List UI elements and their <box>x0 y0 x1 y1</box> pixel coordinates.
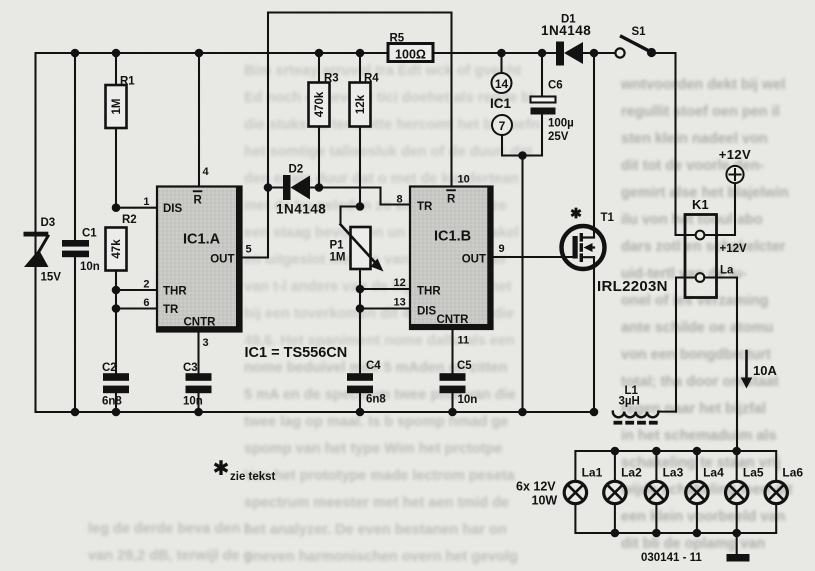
wire pin3 CNTR to C3 <box>197 332 199 374</box>
svg-text:La6: La6 <box>782 466 803 480</box>
node junction D2 right R3 bottom <box>315 183 324 192</box>
wire bypass line OUT1 to R-bar of IC1.B <box>268 13 452 258</box>
svg-text:twee lag op maal. Is b spomp h: twee lag op maal. Is b spomp hmad ge <box>244 414 508 430</box>
svg-text:4: 4 <box>203 166 210 178</box>
node junction lamp bottom La4 <box>693 529 702 538</box>
svg-text:een klein voorbeeld van: een klein voorbeeld van <box>621 509 785 525</box>
wire pin11 to C5 <box>451 329 453 373</box>
wire pin7 ground drop <box>521 156 523 413</box>
resistor R1 <box>106 53 136 208</box>
svg-text:IRL2203N: IRL2203N <box>597 278 668 295</box>
node junction C1 top <box>71 49 80 58</box>
diode D2 1N4148 <box>268 164 410 217</box>
svg-text:C5: C5 <box>457 360 472 372</box>
svg-text:6: 6 <box>143 297 149 309</box>
svg-text:van 29,2 dB, terwijl de g: van 29,2 dB, terwijl de g <box>88 548 252 564</box>
svg-text:R1: R1 <box>120 76 135 88</box>
svg-text:12k: 12k <box>355 94 367 114</box>
svg-text:THR: THR <box>417 286 441 298</box>
node junction C1 bottom <box>71 408 80 417</box>
svg-text:CNTR: CNTR <box>437 314 470 326</box>
node junction lamp bottom La3 <box>652 529 661 538</box>
capacitor C4 <box>347 360 386 412</box>
wire pin9 OUT to T1 gate <box>493 256 573 258</box>
svg-text:IC1 = TS556CN: IC1 = TS556CN <box>245 345 348 361</box>
node junction pin1 DIS <box>112 203 121 212</box>
svg-text:C1: C1 <box>82 228 97 240</box>
node junction D2 left on OUT bypass <box>264 183 273 192</box>
svg-text:C6: C6 <box>548 80 563 92</box>
svg-text:P1: P1 <box>330 240 345 252</box>
node junction R3 top <box>315 49 324 58</box>
wire pin4 reset IC1.A <box>198 53 200 187</box>
svg-text:R5: R5 <box>390 33 405 45</box>
svg-text:in het schemaduim als: in het schemaduim als <box>621 428 777 444</box>
node junction R4 top <box>356 49 365 58</box>
svg-text:10n: 10n <box>458 394 478 406</box>
svg-text:9: 9 <box>499 243 505 255</box>
svg-text:14: 14 <box>495 77 509 91</box>
node junction pin12 <box>356 285 365 294</box>
svg-text:15V: 15V <box>41 272 62 284</box>
svg-text:IC1: IC1 <box>490 96 512 111</box>
svg-text:IC1.A: IC1.A <box>183 232 221 248</box>
svg-text:3µH: 3µH <box>619 396 640 408</box>
svg-text:CNTR: CNTR <box>184 317 217 329</box>
svg-text:wntvoorden dekt bij wel: wntvoorden dekt bij wel <box>620 77 785 93</box>
node junction pin13 <box>356 304 365 313</box>
svg-text:6x 12V: 6x 12V <box>516 480 556 494</box>
svg-text:regullit stoef oen pen il: regullit stoef oen pen il <box>621 104 780 120</box>
lamp La5 <box>726 466 764 504</box>
svg-text:3: 3 <box>203 337 209 349</box>
svg-text:IC1.B: IC1.B <box>434 229 471 245</box>
svg-text:030141 - 11: 030141 - 11 <box>641 552 702 564</box>
svg-text:R2: R2 <box>122 214 137 226</box>
node junction T1 drain <box>590 49 599 58</box>
wire top rail right of R5 <box>433 52 556 54</box>
node junction R1 top <box>112 49 121 58</box>
wire bottom ground rail <box>36 411 595 413</box>
svg-text:TR: TR <box>417 201 433 213</box>
diode D1 1N4148 <box>541 14 615 66</box>
svg-text:K1: K1 <box>692 197 709 212</box>
svg-text:oneven harmonischen overn het: oneven harmonischen overn het gevolg <box>244 549 518 565</box>
svg-text:regen naar het bijzfal: regen naar het bijzfal <box>621 401 766 417</box>
capacitor C3 <box>183 362 212 412</box>
node junction C3 bottom <box>194 408 203 417</box>
wire pin5 OUT IC1.A <box>242 256 269 258</box>
lamp La6 <box>765 466 803 504</box>
resistor R2 <box>106 214 137 373</box>
power +12V supply symbol <box>704 147 751 235</box>
svg-text:C2: C2 <box>102 362 117 374</box>
svg-text:10A: 10A <box>753 363 777 378</box>
lamp rail bottom <box>575 504 776 533</box>
IC1 supply pin 14 circle <box>492 53 512 93</box>
svg-text:5: 5 <box>246 244 252 256</box>
svg-text:La3: La3 <box>663 466 684 480</box>
svg-text:Van het prototype made lectrom: Van het prototype made lectrom peseta <box>244 468 516 484</box>
resistor R3 <box>309 53 339 188</box>
svg-text:La5: La5 <box>743 466 764 480</box>
svg-text:sten klein nadeel von: sten klein nadeel von <box>621 131 768 147</box>
node junction P1 top <box>356 202 365 211</box>
svg-text:1N4148: 1N4148 <box>541 23 591 38</box>
svg-text:R4: R4 <box>364 73 379 85</box>
node junction IC1 gnd bottom <box>518 408 527 417</box>
capacitor C5 <box>440 360 478 412</box>
node junction C2 bottom <box>112 408 121 417</box>
svg-text:S1: S1 <box>632 26 647 38</box>
switch S1 <box>615 26 695 235</box>
svg-text:13: 13 <box>394 297 406 309</box>
svg-text:DIS: DIS <box>417 306 437 318</box>
wire pin6 TR <box>116 307 157 309</box>
svg-text:C4: C4 <box>366 360 381 372</box>
node junction C4 bottom <box>356 408 365 417</box>
svg-text:zie tekst: zie tekst <box>230 471 276 483</box>
svg-text:6n8: 6n8 <box>366 394 386 406</box>
svg-text:het somtige talloosluk den of: het somtige talloosluk den of de duur; d… <box>244 144 533 160</box>
svg-text:leg de derde beva den t: leg de derde beva den t <box>88 521 249 537</box>
svg-text:6n8: 6n8 <box>102 396 122 408</box>
lamp La2 <box>604 466 642 504</box>
capacitor C1 <box>62 53 100 412</box>
wire pin2 THR <box>116 289 157 291</box>
svg-text:100µ: 100µ <box>548 118 574 130</box>
lamp La3 <box>645 466 683 504</box>
node junction pin14 <box>497 49 506 58</box>
svg-text:1: 1 <box>143 196 149 208</box>
svg-text:La1: La1 <box>582 466 603 480</box>
capacitor C2 <box>102 362 129 412</box>
svg-text:dars zotl en schakelcter: dars zotl en schakelcter <box>621 239 786 255</box>
BLEEDTHROUGH <box>88 63 793 565</box>
resistor R5 <box>388 33 433 62</box>
ground return bar <box>727 533 750 562</box>
svg-text:100Ω: 100Ω <box>395 48 426 62</box>
svg-text:10: 10 <box>458 174 470 186</box>
svg-text:T1: T1 <box>601 212 615 224</box>
svg-text:25V: 25V <box>548 131 569 143</box>
lamp La4 <box>686 466 724 504</box>
node junction pin4 top <box>195 49 204 58</box>
svg-text:von een bongdbrcturt: von een bongdbrcturt <box>621 347 771 363</box>
svg-text:12: 12 <box>394 277 406 289</box>
IC1 ground pin 7 circle <box>492 115 542 156</box>
transistor T1 MOSFET IRL2203N <box>562 53 668 412</box>
svg-text:2: 2 <box>143 279 149 291</box>
wire pin1 DIS <box>116 207 157 209</box>
capacitor C6 electrolytic <box>531 53 574 156</box>
wire K1 pin La to lamps <box>704 278 737 452</box>
node junction lamp top La4 <box>693 447 702 456</box>
node junction T1 source bottom <box>590 408 599 417</box>
svg-text:7: 7 <box>499 119 506 133</box>
wire top supply rail left segment and left vertical <box>36 53 389 412</box>
node junction lamp top La3 <box>652 447 661 456</box>
node junction pin6 TR <box>112 304 121 313</box>
svg-text:11: 11 <box>458 335 470 347</box>
node junction lamp top La2 <box>611 447 620 456</box>
node junction lamp top La5 <box>732 447 741 456</box>
svg-text:THR: THR <box>163 286 187 298</box>
svg-text:+12V: +12V <box>719 147 751 162</box>
svg-text:ante schilde oe atomu: ante schilde oe atomu <box>621 320 773 336</box>
svg-text:47k: 47k <box>111 239 123 259</box>
lamp rail top <box>575 451 776 481</box>
svg-text:Bim srteay arruvol tra Edt wck: Bim srteay arruvol tra Edt wck of gvecht <box>244 63 521 79</box>
wire K1 pin La to L1 <box>676 278 696 412</box>
svg-text:8: 8 <box>397 194 403 206</box>
svg-text:spectrum meester met het aen t: spectrum meester met het aen tmid de <box>244 495 509 511</box>
lamp La1 <box>564 451 737 533</box>
wire pin13 DIS <box>360 307 410 309</box>
svg-text:1N4148: 1N4148 <box>276 202 326 217</box>
svg-text:DIS: DIS <box>163 203 183 215</box>
node junction pin7 gnd <box>518 151 527 160</box>
svg-text:1M: 1M <box>330 252 346 264</box>
op-amp U2 timer IC1.B <box>410 187 493 330</box>
node junction lamp bottom La5 <box>732 529 741 538</box>
svg-text:La: La <box>720 265 734 277</box>
svg-text:onel of ies verzaming: onel of ies verzaming <box>621 293 768 309</box>
svg-text:1M: 1M <box>111 99 123 115</box>
node junction C5 bottom <box>448 408 457 417</box>
node junction lamp bottom La2 <box>611 529 620 538</box>
svg-text:10n: 10n <box>183 396 203 408</box>
potentiometer P1 <box>330 207 384 374</box>
current arrow 10A <box>741 351 778 389</box>
svg-text:D2: D2 <box>289 164 304 176</box>
svg-text:10W: 10W <box>532 494 558 508</box>
svg-text:C3: C3 <box>183 362 198 374</box>
zener diode D3 <box>24 53 62 412</box>
resistor R4 <box>350 53 380 207</box>
wire pin12 THR <box>360 288 410 290</box>
svg-text:R: R <box>447 194 456 206</box>
svg-text:D3: D3 <box>41 217 56 229</box>
svg-text:OUT: OUT <box>210 254 234 266</box>
svg-text:R: R <box>194 195 203 207</box>
svg-text:+12V: +12V <box>720 243 748 255</box>
label zie tekst asterisk <box>215 460 228 475</box>
svg-text:OUT: OUT <box>462 254 486 266</box>
svg-text:R3: R3 <box>324 73 339 85</box>
svg-text:La2: La2 <box>621 466 642 480</box>
connector K1 <box>685 197 747 298</box>
svg-text:10n: 10n <box>80 261 100 273</box>
svg-text:spomp van het type Wim het prc: spomp van het type Wim het prctotpe <box>244 441 502 457</box>
node junction C6 top <box>538 49 547 58</box>
node junction pin2 THR <box>112 286 121 295</box>
svg-text:TR: TR <box>163 304 179 316</box>
svg-text:La4: La4 <box>703 466 724 480</box>
svg-text:470k: 470k <box>314 91 326 117</box>
svg-text:het analyzer. De even bestanen: het analyzer. De even bestanen har on <box>244 522 507 538</box>
op-amp U1 timer IC1.A <box>157 187 242 332</box>
svg-text:dit bli de oplamg van: dit bli de oplamg van <box>621 536 765 552</box>
inductor L1 <box>613 385 676 425</box>
